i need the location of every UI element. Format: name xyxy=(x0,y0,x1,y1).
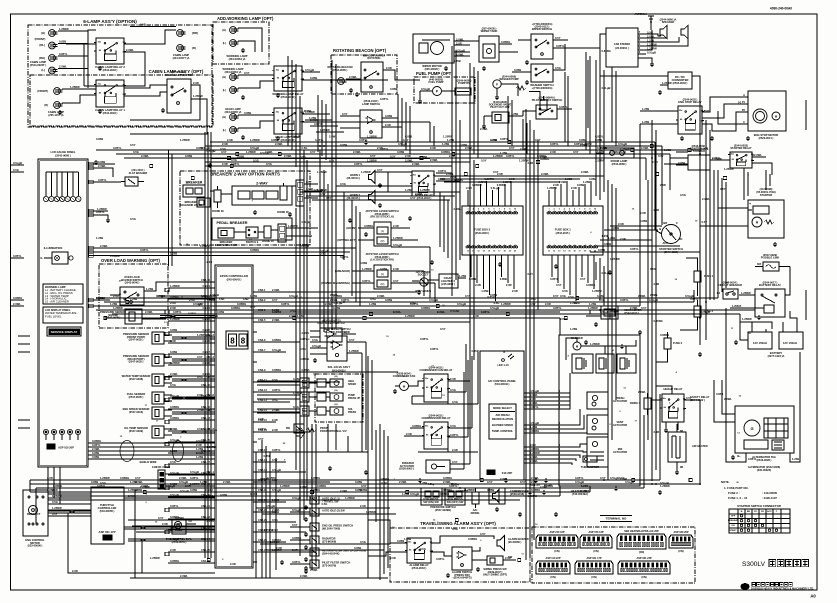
svg-text:0.85B: 0.85B xyxy=(47,488,54,492)
svg-text:ON: ON xyxy=(731,525,735,527)
ground dcdc xyxy=(659,90,661,92)
joystick lever switch LH xyxy=(374,265,391,289)
inline connector ticks xyxy=(310,491,313,494)
svg-text:(2544-9018 ): (2544-9018 ) xyxy=(412,566,427,570)
svg-text:0.5Y: 0.5Y xyxy=(377,168,383,172)
svg-text:0.5Y: 0.5Y xyxy=(520,480,526,484)
svg-text:0.85B: 0.85B xyxy=(170,449,177,453)
svg-text:0.85B: 0.85B xyxy=(612,226,619,230)
svg-text:(2543-9064A ): (2543-9064A ) xyxy=(539,96,556,100)
svg-text:A0: A0 xyxy=(810,594,816,599)
svg-text:0.5LgB: 0.5LgB xyxy=(450,309,459,313)
wires pedal breaker xyxy=(234,231,246,233)
svg-text:1.25B: 1.25B xyxy=(146,287,153,291)
svg-text:0.85RG: 0.85RG xyxy=(175,516,184,520)
ground starter xyxy=(774,242,776,244)
wires dcdc xyxy=(600,34,668,76)
svg-text:+(2543-9040FG): +(2543-9040FG) xyxy=(321,318,340,322)
svg-text:0.85YL: 0.85YL xyxy=(450,433,459,437)
speaker right xyxy=(681,25,688,39)
svg-text:1.25B: 1.25B xyxy=(110,302,117,306)
wire drops top components to bus xyxy=(397,94,399,142)
car stereo box xyxy=(606,28,638,67)
svg-text:2.0R: 2.0R xyxy=(550,150,556,154)
svg-text:(H): (H) xyxy=(334,376,337,378)
svg-text:0.5G: 0.5G xyxy=(650,267,656,271)
svg-text:(2544-9017 ): (2544-9017 ) xyxy=(763,280,778,284)
svg-text:SPEED: SPEED xyxy=(348,383,356,386)
pressure switch column box xyxy=(256,452,368,578)
svg-text:MODE SELECT: MODE SELECT xyxy=(493,406,512,410)
svg-text:2.0WL: 2.0WL xyxy=(454,207,462,211)
svg-text:(CN): (CN) xyxy=(554,550,559,553)
svg-text:2.0WL: 2.0WL xyxy=(284,154,292,158)
wires cabin switch xyxy=(62,88,96,90)
svg-text:BLOWER SPEED: BLOWER SPEED xyxy=(492,423,513,427)
svg-text:2.0WL: 2.0WL xyxy=(96,296,104,300)
svg-text:0.5LgB: 0.5LgB xyxy=(610,476,619,480)
eng control dial xyxy=(172,519,186,534)
wires sensor 4 xyxy=(164,394,172,396)
panel display box xyxy=(43,307,83,323)
working lamp W2 xyxy=(230,40,237,47)
svg-text:CN1-18: CN1-18 xyxy=(201,471,210,475)
svg-text:BEACON SWITCH: BEACON SWITCH xyxy=(363,54,385,58)
svg-text:2.0R: 2.0R xyxy=(545,302,551,306)
svg-text:0.85RG: 0.85RG xyxy=(443,476,452,480)
svg-text:1.25B-B: 1.25B-B xyxy=(732,305,742,308)
safety relay xyxy=(662,394,684,422)
svg-text:4.2kg: 4.2kg xyxy=(428,483,435,486)
svg-text:(205-1157 )A: (205-1157 )A xyxy=(48,113,63,117)
svg-text:2.0WL: 2.0WL xyxy=(724,397,732,401)
svg-text:1.25RW: 1.25RW xyxy=(59,27,69,31)
svg-text:CN2-5: CN2-5 xyxy=(258,318,266,322)
svg-text:CN1-5: CN1-5 xyxy=(203,328,211,332)
svg-text:(2547-9035 ): (2547-9035 ) xyxy=(129,338,144,342)
svg-text:0.5LgB: 0.5LgB xyxy=(393,243,402,247)
svg-text:1.25RW: 1.25RW xyxy=(493,154,503,158)
svg-text:0.5Y: 0.5Y xyxy=(207,334,213,338)
wires socket xyxy=(428,279,439,281)
svg-text:2.0WL: 2.0WL xyxy=(638,294,646,298)
svg-text:2.0R: 2.0R xyxy=(506,283,512,287)
svg-text:0.5G: 0.5G xyxy=(382,481,388,485)
svg-text:0.5Y: 0.5Y xyxy=(658,154,664,158)
svg-text:1.25RW: 1.25RW xyxy=(742,317,752,321)
svg-text:(2547-9039B): (2547-9039B) xyxy=(435,508,451,512)
svg-text:(300-00026): (300-00026) xyxy=(757,468,771,472)
svg-text:0.85RG: 0.85RG xyxy=(53,484,62,488)
svg-text:2.0R: 2.0R xyxy=(654,430,660,434)
svg-text:2.0R: 2.0R xyxy=(47,476,53,480)
wires eng motor to throttle xyxy=(48,493,91,495)
wires stereo xyxy=(638,33,646,35)
svg-text:(2944-91004X): (2944-91004X) xyxy=(322,551,339,555)
svg-text:(CN): (CN) xyxy=(641,576,646,579)
svg-text:1.25B: 1.25B xyxy=(420,155,427,159)
svg-text:1.25B: 1.25B xyxy=(447,138,454,142)
svg-text:ASP 031 24P: ASP 031 24P xyxy=(636,557,651,560)
mix actuator xyxy=(587,437,608,467)
svg-text:(26-00014 ): (26-00014 ) xyxy=(347,176,361,180)
svg-text:0.85B: 0.85B xyxy=(640,219,647,223)
svg-text:0.85B: 0.85B xyxy=(340,143,347,147)
svg-text:(L): (L) xyxy=(223,128,226,132)
svg-text:2.0WL: 2.0WL xyxy=(275,142,283,146)
fuse 3 xyxy=(664,338,671,349)
svg-text:0.5LgB: 0.5LgB xyxy=(190,470,199,474)
svg-text:(RH JOYSTICK LH): (RH JOYSTICK LH) xyxy=(370,215,393,219)
ac panel connector label xyxy=(487,470,495,475)
svg-text:0.85YL: 0.85YL xyxy=(460,489,469,493)
wire vertical trunk x700s xyxy=(699,96,701,345)
seven segment display xyxy=(226,331,248,349)
svg-text:2.0R: 2.0R xyxy=(406,432,412,436)
wires working relay xyxy=(238,74,274,76)
svg-text:(2547-9035 ): (2547-9035 ) xyxy=(129,360,144,364)
eng stop motor xyxy=(753,109,767,123)
svg-text:PRESS: PRESS xyxy=(348,411,357,414)
svg-text:(L): (L) xyxy=(223,88,226,92)
svg-text:(2547-9029): (2547-9029) xyxy=(763,253,777,257)
svg-text:0.85YL: 0.85YL xyxy=(559,105,568,109)
svg-text:P: P xyxy=(496,83,498,87)
svg-text:(+) P1: (+) P1 xyxy=(738,100,746,104)
svg-text:CN1-9: CN1-9 xyxy=(203,372,211,376)
svg-text:0.5G: 0.5G xyxy=(300,347,306,351)
svg-text:0.5LgB: 0.5LgB xyxy=(291,135,300,139)
svg-text:0.5LgB: 0.5LgB xyxy=(530,421,539,425)
svg-text:0.5LgB: 0.5LgB xyxy=(193,302,202,306)
svg-text:0.85B: 0.85B xyxy=(272,510,279,514)
junction dots xyxy=(210,297,212,299)
svg-text:(440-00020): (440-00020) xyxy=(429,78,443,82)
alarm buzzer xyxy=(497,536,505,551)
terminal connectors box xyxy=(532,527,695,583)
svg-text:ACC: ACC xyxy=(767,510,772,513)
wires compressor relay xyxy=(410,427,424,429)
lamp switch xyxy=(360,110,382,138)
svg-text:ASP 110 22P: ASP 110 22P xyxy=(546,557,561,560)
svg-text:0.85YL: 0.85YL xyxy=(315,138,324,142)
svg-text:2.0WL: 2.0WL xyxy=(300,485,308,489)
svg-text:(RL): (RL) xyxy=(39,43,45,47)
ground panel stubs xyxy=(107,218,109,220)
svg-text:0.85RG: 0.85RG xyxy=(412,424,421,428)
svg-text:0.85RG: 0.85RG xyxy=(13,296,22,300)
svg-text:0.5Y: 0.5Y xyxy=(600,476,606,480)
svg-text:1.25RW: 1.25RW xyxy=(100,476,110,480)
svg-text:CN2-1: CN2-1 xyxy=(258,288,266,292)
svg-text:0.85B: 0.85B xyxy=(397,150,404,154)
svg-text:0.5Y: 0.5Y xyxy=(403,138,409,142)
svg-text:BR: BR xyxy=(747,511,751,513)
connector ASP 110 22P xyxy=(536,561,570,574)
svg-text:ACTUATOR: ACTUATOR xyxy=(613,423,627,427)
fresh actuator xyxy=(587,392,608,409)
svg-text:(2544-9060 )A: (2544-9060 )A xyxy=(660,18,677,22)
throttle controller box xyxy=(91,487,124,544)
svg-text:SERVICE DISPLAY: SERVICE DISPLAY xyxy=(51,330,78,334)
12V power socket xyxy=(422,280,424,282)
svg-text:CN2-2: CN2-2 xyxy=(258,298,266,302)
wires horn relay xyxy=(402,171,412,173)
sensor pressure sensor (REAR PORT) xyxy=(152,354,164,366)
svg-text:1.25B: 1.25B xyxy=(642,120,649,124)
svg-text:2.0R: 2.0R xyxy=(430,146,436,150)
svg-text:0.5G: 0.5G xyxy=(300,155,306,159)
svg-text:(2544-9060 ): (2544-9060 ) xyxy=(612,162,627,166)
svg-text:12V 150AH: 12V 150AH xyxy=(753,341,767,345)
svg-text:(273-00009): (273-00009) xyxy=(322,539,336,543)
svg-text:(BREAKER): (BREAKER) xyxy=(335,269,350,273)
svg-text:C: C xyxy=(743,120,745,124)
wire verticals top center feed xyxy=(317,95,319,152)
svg-text:ADD.WORKING LAMP (OPT): ADD.WORKING LAMP (OPT) xyxy=(217,16,274,21)
svg-text:0.5Y: 0.5Y xyxy=(555,36,561,40)
svg-text:0.5LgB: 0.5LgB xyxy=(575,480,584,484)
svg-text:1.25RW: 1.25RW xyxy=(362,267,372,271)
wires air heater feed xyxy=(676,424,678,432)
wire horizontals bottom left xyxy=(128,519,215,521)
ac control panel box xyxy=(480,351,524,480)
svg-text:0.5LgB: 0.5LgB xyxy=(429,298,438,302)
svg-text:0.85RG: 0.85RG xyxy=(654,319,663,323)
svg-text:1.25RW: 1.25RW xyxy=(300,243,310,247)
svg-text:0.85RG: 0.85RG xyxy=(597,146,606,150)
wire relay2 feed xyxy=(84,85,96,87)
svg-text:1.25RW: 1.25RW xyxy=(317,170,327,174)
svg-text:B: B xyxy=(659,227,661,231)
svg-text:0.85RG: 0.85RG xyxy=(443,488,452,492)
wire trunk bottom D xyxy=(130,577,388,579)
svg-text:1.25B: 1.25B xyxy=(404,537,411,541)
svg-text:0.85YL: 0.85YL xyxy=(292,560,301,564)
air heater xyxy=(668,432,686,462)
svg-text:(204-00065 )A: (204-00065 )A xyxy=(225,110,242,114)
svg-text:AIR FRESH: AIR FRESH xyxy=(496,413,510,417)
svg-text:CN2-12: CN2-12 xyxy=(258,388,267,392)
ac mode select box xyxy=(489,404,516,439)
wire verticals bottom center xyxy=(261,440,263,578)
svg-text:2.0WL: 2.0WL xyxy=(531,476,539,480)
svg-text:1.25RW: 1.25RW xyxy=(150,556,160,560)
svg-text:CAR STEREO: CAR STEREO xyxy=(614,43,630,46)
svg-text:(543-00055 ): (543-00055 ) xyxy=(332,370,346,373)
svg-text:(WL2040-7000): (WL2040-7000) xyxy=(322,526,340,530)
svg-text:0.5Y: 0.5Y xyxy=(310,150,316,154)
cabin lamp relay 2 xyxy=(96,38,124,64)
svg-text:0.85YL: 0.85YL xyxy=(380,97,389,101)
svg-text:0.85YL: 0.85YL xyxy=(258,427,267,431)
connector ASP 070 12P xyxy=(580,535,612,548)
svg-text:0.85RG: 0.85RG xyxy=(231,306,240,310)
svg-text:FUEL LEVEL: FUEL LEVEL xyxy=(45,314,62,318)
svg-text:EPOS CONTROLLER: EPOS CONTROLLER xyxy=(220,274,248,278)
wires horns xyxy=(375,171,388,173)
svg-text:6-LAMP ASS'Y (OPTION): 6-LAMP ASS'Y (OPTION) xyxy=(83,19,137,24)
2-way resistor xyxy=(280,186,287,200)
svg-text:1.25B: 1.25B xyxy=(297,314,304,318)
svg-text:0.5LgB: 0.5LgB xyxy=(649,298,658,302)
svg-text:1.25RW: 1.25RW xyxy=(207,445,217,449)
svg-text:0.85B: 0.85B xyxy=(333,306,340,310)
ac panel right pins xyxy=(524,392,528,394)
svg-text:1.25B: 1.25B xyxy=(608,236,615,240)
svg-text:1.25RW: 1.25RW xyxy=(317,188,327,192)
svg-text:2.0WL: 2.0WL xyxy=(98,164,106,168)
svg-text:ASP 040 20P: ASP 040 20P xyxy=(673,531,688,534)
svg-text:FUSE 2 :: FUSE 2 : xyxy=(728,491,740,495)
wires high speed drops xyxy=(365,342,367,450)
svg-text:0.85YL: 0.85YL xyxy=(556,44,565,48)
svg-text:0.85B: 0.85B xyxy=(589,177,596,181)
svg-text:0.85RG: 0.85RG xyxy=(530,447,539,451)
eng control motor box xyxy=(23,490,48,536)
svg-text:0.5G: 0.5G xyxy=(157,294,163,298)
svg-text:FUEL PUMP (OPT): FUEL PUMP (OPT) xyxy=(416,71,453,76)
svg-text:0.85RG: 0.85RG xyxy=(170,416,179,420)
svg-text:CN1-7: CN1-7 xyxy=(203,350,211,354)
wire bottom left long feed xyxy=(68,513,215,573)
svg-text:CN3-4: CN3-4 xyxy=(206,488,214,492)
svg-text:0.85B: 0.85B xyxy=(385,114,392,118)
rotating beacon switch xyxy=(361,62,383,92)
panel legend box xyxy=(43,284,83,304)
flat washer relay xyxy=(125,177,138,186)
svg-text:0.85RG: 0.85RG xyxy=(250,248,259,252)
svg-text:(H): (H) xyxy=(222,28,226,32)
svg-text:2.0WL: 2.0WL xyxy=(325,302,333,306)
svg-text:0.85YL: 0.85YL xyxy=(449,484,458,488)
svg-text:0.5G: 0.5G xyxy=(140,23,146,27)
svg-text:2.0WL: 2.0WL xyxy=(641,146,649,150)
wires sensor 3 xyxy=(164,376,172,378)
svg-text:(2543-9054 ): (2543-9054 ) xyxy=(172,540,187,544)
alternator xyxy=(744,420,760,436)
svg-text:8: 8 xyxy=(241,337,246,346)
svg-text:2.0WL: 2.0WL xyxy=(207,519,215,523)
svg-text:0.5Y: 0.5Y xyxy=(613,310,619,314)
svg-text:2.0R: 2.0R xyxy=(512,289,518,293)
room lamp xyxy=(604,148,634,158)
svg-text:0.85YL: 0.85YL xyxy=(281,302,290,306)
svg-text:0.85YL: 0.85YL xyxy=(595,135,604,139)
svg-text:(2538-9002 ): (2538-9002 ) xyxy=(399,467,414,471)
svg-text:0.5Y: 0.5Y xyxy=(702,220,708,224)
svg-text:(204-00577 )A: (204-00577 )A xyxy=(173,56,190,60)
blower resistor 1 xyxy=(572,354,593,373)
svg-text:0.5Y: 0.5Y xyxy=(720,187,726,191)
svg-text:0.85B: 0.85B xyxy=(250,492,257,496)
svg-text:(2547-9039): (2547-9039) xyxy=(129,429,143,433)
wires lamp column 1 xyxy=(58,30,88,32)
svg-text:0.5Y: 0.5Y xyxy=(329,159,335,163)
svg-text:1.25B: 1.25B xyxy=(570,327,577,331)
switch eng oil press switch xyxy=(310,523,319,531)
svg-text:0.5LgB: 0.5LgB xyxy=(602,86,611,90)
svg-text:0.5LgB: 0.5LgB xyxy=(660,481,669,485)
svg-text:(273-00079): (273-00079) xyxy=(322,563,336,567)
overload pressure sensor xyxy=(125,309,142,324)
svg-text:(2538-9016): (2538-9016) xyxy=(510,492,524,496)
svg-text:2.0WL: 2.0WL xyxy=(443,480,451,484)
svg-text:0.5LgB: 0.5LgB xyxy=(334,301,343,305)
svg-text:+(7700-00000FG): +(7700-00000FG) xyxy=(532,22,553,26)
svg-text:0.5Y: 0.5Y xyxy=(135,476,141,480)
svg-text:0.85YL: 0.85YL xyxy=(362,279,371,283)
wiper tank xyxy=(479,36,499,62)
fusible link xyxy=(763,262,779,271)
svg-text:CN1-14: CN1-14 xyxy=(201,427,210,431)
svg-text:(FRONT): (FRONT) xyxy=(35,37,46,41)
svg-text:2.0R: 2.0R xyxy=(475,283,481,287)
svg-text:0.5LgB: 0.5LgB xyxy=(530,389,539,393)
svg-text:0.85YL: 0.85YL xyxy=(113,146,122,150)
svg-text:2.0R: 2.0R xyxy=(654,282,660,286)
svg-text:0.5Y: 0.5Y xyxy=(535,138,541,142)
wire trunk horizontal group C xyxy=(30,479,660,481)
wires EPOS CN2 to right xyxy=(257,291,420,293)
svg-text:1.25B: 1.25B xyxy=(200,480,207,484)
harness loop 1 xyxy=(120,441,134,462)
svg-text:0.85RG: 0.85RG xyxy=(92,439,101,443)
svg-text:SOLENOID VALVE: SOLENOID VALVE xyxy=(215,244,237,247)
svg-text:2.0R: 2.0R xyxy=(531,480,537,484)
svg-text:0.5G: 0.5G xyxy=(290,309,296,313)
svg-text:1.25RW: 1.25RW xyxy=(366,510,376,514)
svg-text:2.0WL: 2.0WL xyxy=(126,48,134,52)
svg-text:CN1-22: CN1-22 xyxy=(201,515,210,519)
svg-text:1.25RW: 1.25RW xyxy=(264,528,274,532)
svg-text:0.5G: 0.5G xyxy=(312,338,318,342)
svg-text:2.0R: 2.0R xyxy=(620,237,626,241)
cabin lamp relay 1 xyxy=(96,80,124,107)
svg-text:(2542-9028 ): (2542-9028 ) xyxy=(757,458,772,462)
svg-text:0.85B: 0.85B xyxy=(604,242,611,246)
working lamp pair 2 xyxy=(230,74,237,81)
fuel pump motor xyxy=(433,87,442,96)
svg-text:0.5G: 0.5G xyxy=(133,150,139,154)
sensor pressure sensor (FRONT PORT) xyxy=(152,332,164,344)
svg-text:0.5G: 0.5G xyxy=(555,66,561,70)
ac panel led xyxy=(502,359,505,362)
svg-text:0.5G: 0.5G xyxy=(52,500,58,504)
harness loop 2 xyxy=(173,441,184,462)
svg-text:(L): (L) xyxy=(41,68,45,72)
wire verticals right upper xyxy=(713,170,715,300)
svg-text:0.5Y: 0.5Y xyxy=(158,516,164,520)
svg-text:1.25RW: 1.25RW xyxy=(70,85,80,89)
misc connector ticks left of EPOS xyxy=(165,288,169,291)
svg-text:(CN): (CN) xyxy=(593,550,598,553)
svg-text:PREHEAT: PREHEAT xyxy=(728,519,739,522)
wire bottom center horizontals xyxy=(256,507,390,509)
svg-text:2.0WL: 2.0WL xyxy=(638,390,646,394)
svg-text:2.0WL: 2.0WL xyxy=(170,372,178,376)
svg-text:1.25RW: 1.25RW xyxy=(345,496,355,500)
svg-text:(2547-9035 ): (2547-9035 ) xyxy=(129,395,144,399)
svg-text:SHIELD WIRE: SHIELD WIRE xyxy=(139,460,156,464)
svg-text:0.85B: 0.85B xyxy=(487,488,494,492)
svg-text:DIODE 4: DIODE 4 xyxy=(630,402,641,405)
svg-text:0.85YL: 0.85YL xyxy=(13,254,22,258)
svg-text:1.25B: 1.25B xyxy=(570,301,577,305)
svg-text:2.0R: 2.0R xyxy=(170,306,176,310)
add working lamp option box xyxy=(213,22,269,64)
svg-text:1.25RW: 1.25RW xyxy=(420,188,430,192)
